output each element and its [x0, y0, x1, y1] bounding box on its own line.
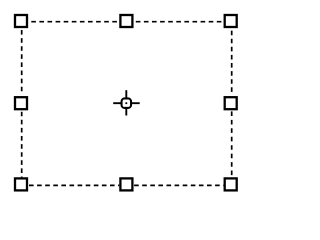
wire: dashed bottom edge left segment	[29, 184, 119, 186]
center-of-rotation marker: vertical tick	[125, 90, 127, 115]
handle: top-right	[225, 15, 237, 27]
handle: bottom-middle	[120, 178, 132, 190]
handle: middle-left	[15, 97, 27, 109]
center-of-rotation marker: center dot	[125, 102, 127, 104]
handle: bottom-right	[225, 178, 237, 190]
handle: top-left	[15, 15, 27, 27]
center-of-rotation marker: circle	[122, 98, 132, 108]
wire: dashed top edge right segment	[136, 21, 224, 23]
wire: dashed top edge left segment	[31, 21, 119, 23]
wire: dashed right edge lower segment	[231, 111, 233, 175]
wire: dashed left edge lower segment	[21, 112, 23, 178]
wire: dashed left edge upper segment	[21, 30, 23, 95]
handle: bottom-left	[15, 178, 27, 190]
wire: dashed right edge upper segment	[231, 31, 233, 95]
center-of-rotation marker: horizontal tick	[113, 102, 140, 104]
handle: top-middle	[120, 15, 132, 27]
handle: middle-right	[225, 97, 237, 109]
wire: dashed bottom edge right segment	[134, 184, 224, 186]
